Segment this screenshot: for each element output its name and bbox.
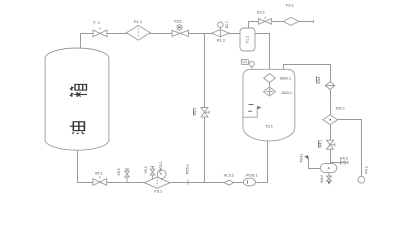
svg-text:SW4: SW4	[317, 77, 321, 84]
svg-text:SM3.1: SM3.1	[280, 76, 292, 81]
svg-text:P4.1: P4.1	[365, 166, 369, 173]
svg-text:F3.1: F3.1	[286, 2, 295, 7]
svg-text:K1.1: K1.1	[217, 37, 226, 42]
svg-text:TM4.1: TM4.1	[300, 153, 304, 163]
svg-text:W4.2: W4.2	[320, 175, 324, 183]
svg-text:PG5.2: PG5.2	[185, 164, 189, 174]
svg-text:D2.1: D2.1	[225, 21, 229, 28]
svg-text:LG: LG	[243, 60, 248, 64]
svg-text:P1.1: P1.1	[134, 19, 143, 24]
svg-text:PG5.1: PG5.1	[159, 161, 163, 171]
svg-text:V5.1: V5.1	[95, 171, 104, 176]
svg-text:V5.3: V5.3	[144, 166, 148, 173]
svg-text:F5.1: F5.1	[154, 188, 163, 193]
svg-text:E4.2: E4.2	[340, 155, 349, 160]
svg-text:VL5.1: VL5.1	[224, 173, 235, 178]
svg-text:POS.1: POS.1	[246, 173, 259, 178]
svg-text:V5.2: V5.2	[117, 168, 121, 175]
svg-text:T1.2: T1.2	[246, 36, 250, 43]
svg-text:S3.1: S3.1	[257, 10, 266, 15]
svg-text:V .1: V .1	[93, 19, 101, 24]
svg-text:K23 .: K23 .	[174, 19, 183, 24]
svg-text:ZA3.1: ZA3.1	[281, 90, 292, 95]
svg-text:T3.1: T3.1	[265, 124, 274, 129]
svg-text:J24.1: J24.1	[335, 105, 346, 110]
svg-text:W4.1: W4.1	[318, 140, 322, 148]
